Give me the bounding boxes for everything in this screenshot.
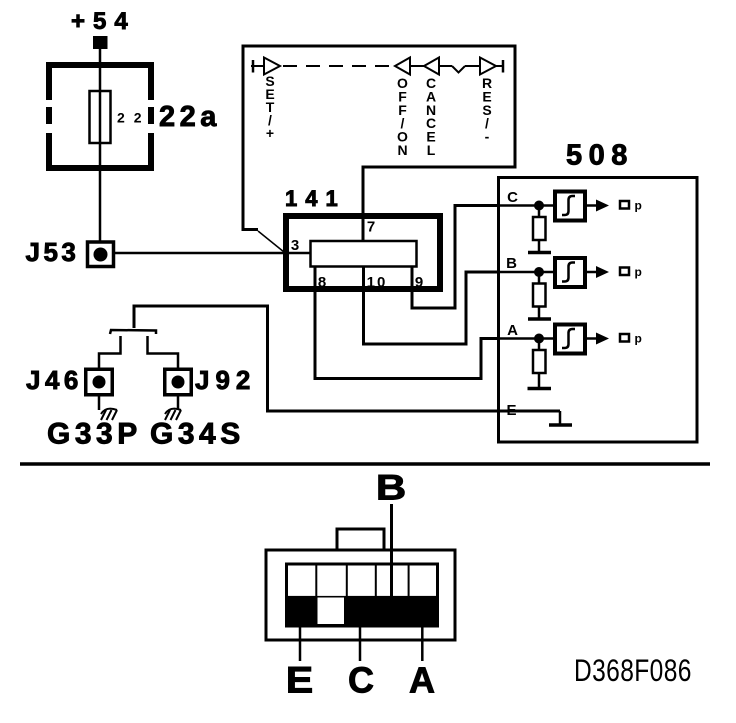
label SET/+ vertical [265, 73, 274, 141]
step symbol A [562, 329, 575, 348]
control unit 141 box [286, 216, 440, 289]
pinout connector inner frame [287, 564, 438, 626]
svg-text:A: A [507, 322, 518, 339]
switch assembly box outline [243, 46, 515, 231]
svg-text:B: B [506, 255, 517, 272]
junction A [534, 334, 544, 344]
wire J92 to ground [177, 395, 180, 410]
wire pin 8 to 508 A [315, 266, 498, 379]
switch OFF/ON triangle [395, 58, 410, 75]
svg-text:508: 508 [566, 140, 634, 172]
wire OFF to CANCEL [410, 65, 424, 67]
arrow C [596, 200, 609, 212]
wire v to RES [465, 65, 480, 67]
contact v symbol [452, 66, 465, 73]
wire pin 7 [362, 166, 365, 242]
svg-text:22: 22 [117, 110, 151, 126]
dashed wire SET to OFF [283, 65, 394, 67]
pinout filled row [285, 596, 439, 628]
switch CANCEL triangle [424, 58, 439, 75]
connector J46 square [86, 369, 113, 395]
separator line [20, 462, 710, 466]
resistor A [538, 343, 541, 350]
pinout cell dividers [316, 564, 408, 596]
svg-text:+: + [266, 125, 274, 141]
pinout lead E [299, 627, 302, 661]
channel C [499, 189, 642, 253]
terminal bar A [528, 387, 552, 391]
svg-text:p: p [635, 199, 642, 213]
wire C input [499, 204, 556, 207]
wire pin 9 to 508 C [412, 206, 498, 309]
terminal bar C [528, 251, 551, 255]
wire J53 to pin 3 [113, 252, 310, 255]
wire A input [499, 337, 556, 340]
pinout connector outer housing [266, 550, 455, 640]
svg-text:10: 10 [367, 274, 388, 291]
wire switch common to E [134, 306, 560, 411]
svg-text:8: 8 [318, 274, 326, 291]
svg-text:D368F086: D368F086 [574, 652, 692, 688]
connector J92 dot [172, 376, 185, 389]
wire +54 to J53 [99, 49, 102, 241]
connector J53 square [88, 242, 114, 267]
svg-text:A: A [409, 660, 435, 701]
junction C [534, 201, 544, 211]
threshold block C [555, 192, 585, 221]
switch box tail horizontal [243, 228, 258, 231]
label OFF/ON vertical [397, 75, 408, 158]
threshold block A [555, 325, 585, 354]
svg-text:9: 9 [415, 274, 423, 291]
junction B [534, 267, 544, 277]
wire A output [587, 337, 600, 340]
control unit 508 box [499, 178, 698, 443]
switch bar [110, 330, 156, 334]
switch RES/- tick [502, 60, 505, 73]
ground symbol G33P [101, 409, 117, 420]
wire pin 10 to 508 B [364, 266, 499, 344]
svg-text:C: C [507, 189, 518, 206]
svg-text:J46: J46 [26, 365, 83, 395]
label CANCEL vertical [426, 75, 436, 158]
wire J46 to ground [98, 395, 101, 410]
label RES/- vertical [482, 75, 492, 145]
svg-text:p: p [635, 265, 642, 279]
connector J53 dot [94, 248, 108, 262]
arrow B [596, 266, 609, 278]
output square C [620, 201, 629, 209]
svg-text:E: E [286, 659, 314, 701]
svg-text:22a: 22a [159, 101, 221, 133]
svg-text:J53: J53 [26, 237, 80, 267]
terminal square +54 [93, 36, 108, 49]
connector J92 square [165, 369, 192, 395]
resistor B [538, 277, 541, 284]
svg-text:C: C [348, 660, 374, 701]
pinout white cell [318, 598, 345, 625]
svg-text:E: E [506, 402, 516, 419]
svg-text:G33P: G33P [47, 418, 142, 451]
wire switch to J92 [148, 336, 179, 369]
pinout wire B [390, 504, 393, 596]
connector J46 dot [93, 376, 106, 389]
channel A [499, 322, 642, 389]
switch box tail diagonal [258, 231, 284, 252]
step symbol C [562, 196, 575, 215]
pinout lead C [359, 627, 362, 661]
svg-text:-: - [485, 129, 490, 145]
svg-text:G34S: G34S [150, 418, 245, 451]
switch SET/+ tick [252, 60, 255, 73]
wire C output [587, 204, 600, 207]
svg-text:141: 141 [285, 186, 346, 211]
output square B [620, 268, 629, 276]
wire RES apex [496, 65, 504, 67]
pinout connector tab [337, 529, 384, 550]
resistor C [538, 210, 541, 217]
svg-text:L: L [427, 142, 436, 158]
fuse symbol 22 [90, 91, 111, 143]
wire switch to J46 [99, 336, 121, 369]
pinout lead A [421, 627, 424, 661]
switch SET/+ stub [251, 65, 264, 67]
wire B output [587, 271, 600, 274]
svg-text:N: N [397, 142, 407, 158]
svg-text:J92: J92 [195, 365, 256, 395]
terminal bar B [528, 317, 551, 321]
svg-text:7: 7 [367, 219, 375, 236]
ground symbol in 508 [559, 411, 562, 424]
svg-text:p: p [635, 332, 642, 346]
svg-text:3: 3 [291, 237, 299, 254]
channel B [499, 255, 642, 319]
step symbol B [562, 263, 575, 282]
switch SET/+ triangle [264, 58, 280, 75]
wire B input [499, 271, 556, 274]
fuse box 22a dashed border [46, 62, 154, 171]
svg-text:+54: +54 [71, 8, 136, 35]
ground symbol G34S [165, 409, 181, 420]
wire CANCEL to v [439, 65, 452, 67]
control unit 141 inner block [311, 241, 417, 267]
arrow A [596, 333, 609, 345]
svg-text:B: B [376, 469, 406, 508]
output square A [620, 334, 629, 342]
threshold block B [555, 258, 585, 287]
switch RES/- triangle [480, 58, 496, 75]
